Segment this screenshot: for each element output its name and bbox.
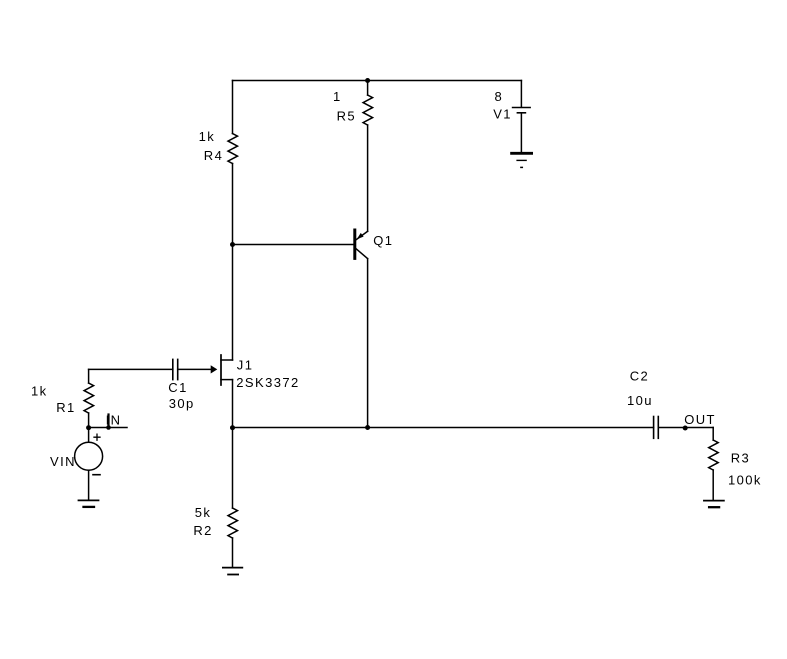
svg-text:R1: R1 xyxy=(56,400,75,415)
node top junction xyxy=(365,78,370,83)
resistor R4 xyxy=(199,129,238,163)
ground (R3) xyxy=(704,501,724,508)
wire J1 source down xyxy=(232,380,234,428)
ground (V1) xyxy=(512,153,532,167)
node base junction xyxy=(230,242,235,247)
node source junction xyxy=(230,425,235,430)
node collector junction xyxy=(365,425,370,430)
svg-text:10u: 10u xyxy=(627,393,653,408)
svg-text:1k: 1k xyxy=(199,129,216,144)
wire Q1 collector down xyxy=(367,259,369,428)
ground (R2) xyxy=(223,568,242,575)
wire R4 top xyxy=(232,81,234,134)
resistor R1 xyxy=(31,369,94,414)
svg-text:Q1: Q1 xyxy=(373,233,393,248)
svg-text:C2: C2 xyxy=(630,368,649,383)
wire output row xyxy=(233,427,654,429)
svg-text:1: 1 xyxy=(333,89,342,104)
svg-text:100k: 100k xyxy=(728,472,762,487)
node IN junction xyxy=(86,425,91,430)
svg-text:V1: V1 xyxy=(493,107,512,122)
wire OUT corner down to R3 xyxy=(712,428,714,441)
capacitor C1 xyxy=(168,359,194,410)
wire R4 bottom to base node xyxy=(232,164,234,245)
svg-text:J1: J1 xyxy=(237,357,254,372)
wire VIN to ground xyxy=(88,470,90,499)
ground (VIN) xyxy=(79,500,99,507)
svg-text:VIN: VIN xyxy=(50,454,76,469)
wire Q1 base xyxy=(233,244,354,246)
source VIN xyxy=(50,434,103,475)
wire R2 to ground xyxy=(232,538,234,567)
wire R3 to ground xyxy=(712,470,714,500)
wire R1 corner to C1 xyxy=(89,368,173,370)
wire top rail xyxy=(233,80,522,82)
wire C1 to J1 gate xyxy=(178,368,211,370)
svg-text:30p: 30p xyxy=(169,396,195,411)
svg-text:R2: R2 xyxy=(193,523,212,538)
battery V1 xyxy=(493,89,530,121)
svg-text:R3: R3 xyxy=(731,451,750,466)
wire IN node to VIN xyxy=(88,428,90,443)
svg-text:OUT: OUT xyxy=(684,412,716,427)
resistor R5 xyxy=(333,89,373,125)
svg-text:R4: R4 xyxy=(204,148,223,163)
wire base node to J1 drain xyxy=(232,245,234,361)
resistor R2 xyxy=(193,505,237,538)
wire IN stub xyxy=(89,427,127,429)
svg-text:IN: IN xyxy=(106,412,122,427)
resistor R3 xyxy=(709,440,762,487)
svg-text:R5: R5 xyxy=(337,109,356,124)
node OUT junction xyxy=(683,426,688,431)
wire to R2 xyxy=(232,428,234,509)
svg-text:C1: C1 xyxy=(168,380,187,395)
node IN label pin xyxy=(106,412,122,429)
wire V1 to ground xyxy=(520,113,522,152)
svg-text:1k: 1k xyxy=(31,384,48,399)
transistor Q1 xyxy=(355,230,394,259)
wire V1 top xyxy=(520,81,522,108)
svg-text:8: 8 xyxy=(495,89,504,104)
transistor J1 (JFET) xyxy=(211,355,300,390)
wire C2 to OUT corner xyxy=(658,427,713,429)
capacitor C2 xyxy=(627,368,658,438)
wire R1 bottom to IN node xyxy=(88,413,90,428)
wire R5 top xyxy=(367,81,369,96)
svg-text:2SK3372: 2SK3372 xyxy=(236,375,299,390)
svg-text:5k: 5k xyxy=(195,505,212,520)
wire R5 bottom to Q1 emitter xyxy=(367,125,369,231)
